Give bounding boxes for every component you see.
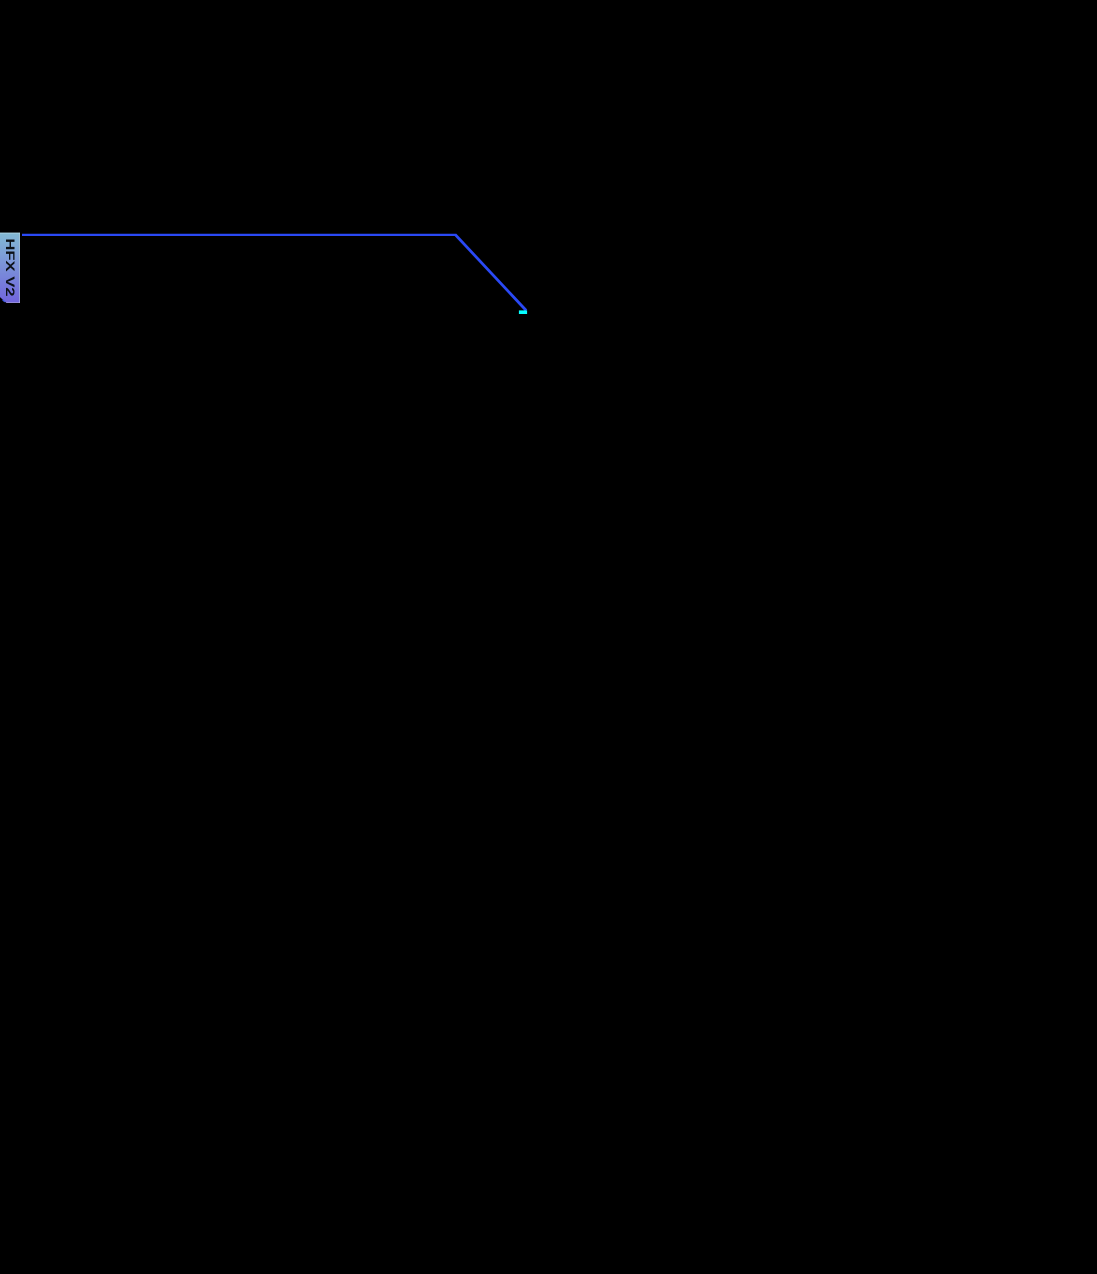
svg-text:HFX V2: HFX V2: [3, 238, 16, 296]
